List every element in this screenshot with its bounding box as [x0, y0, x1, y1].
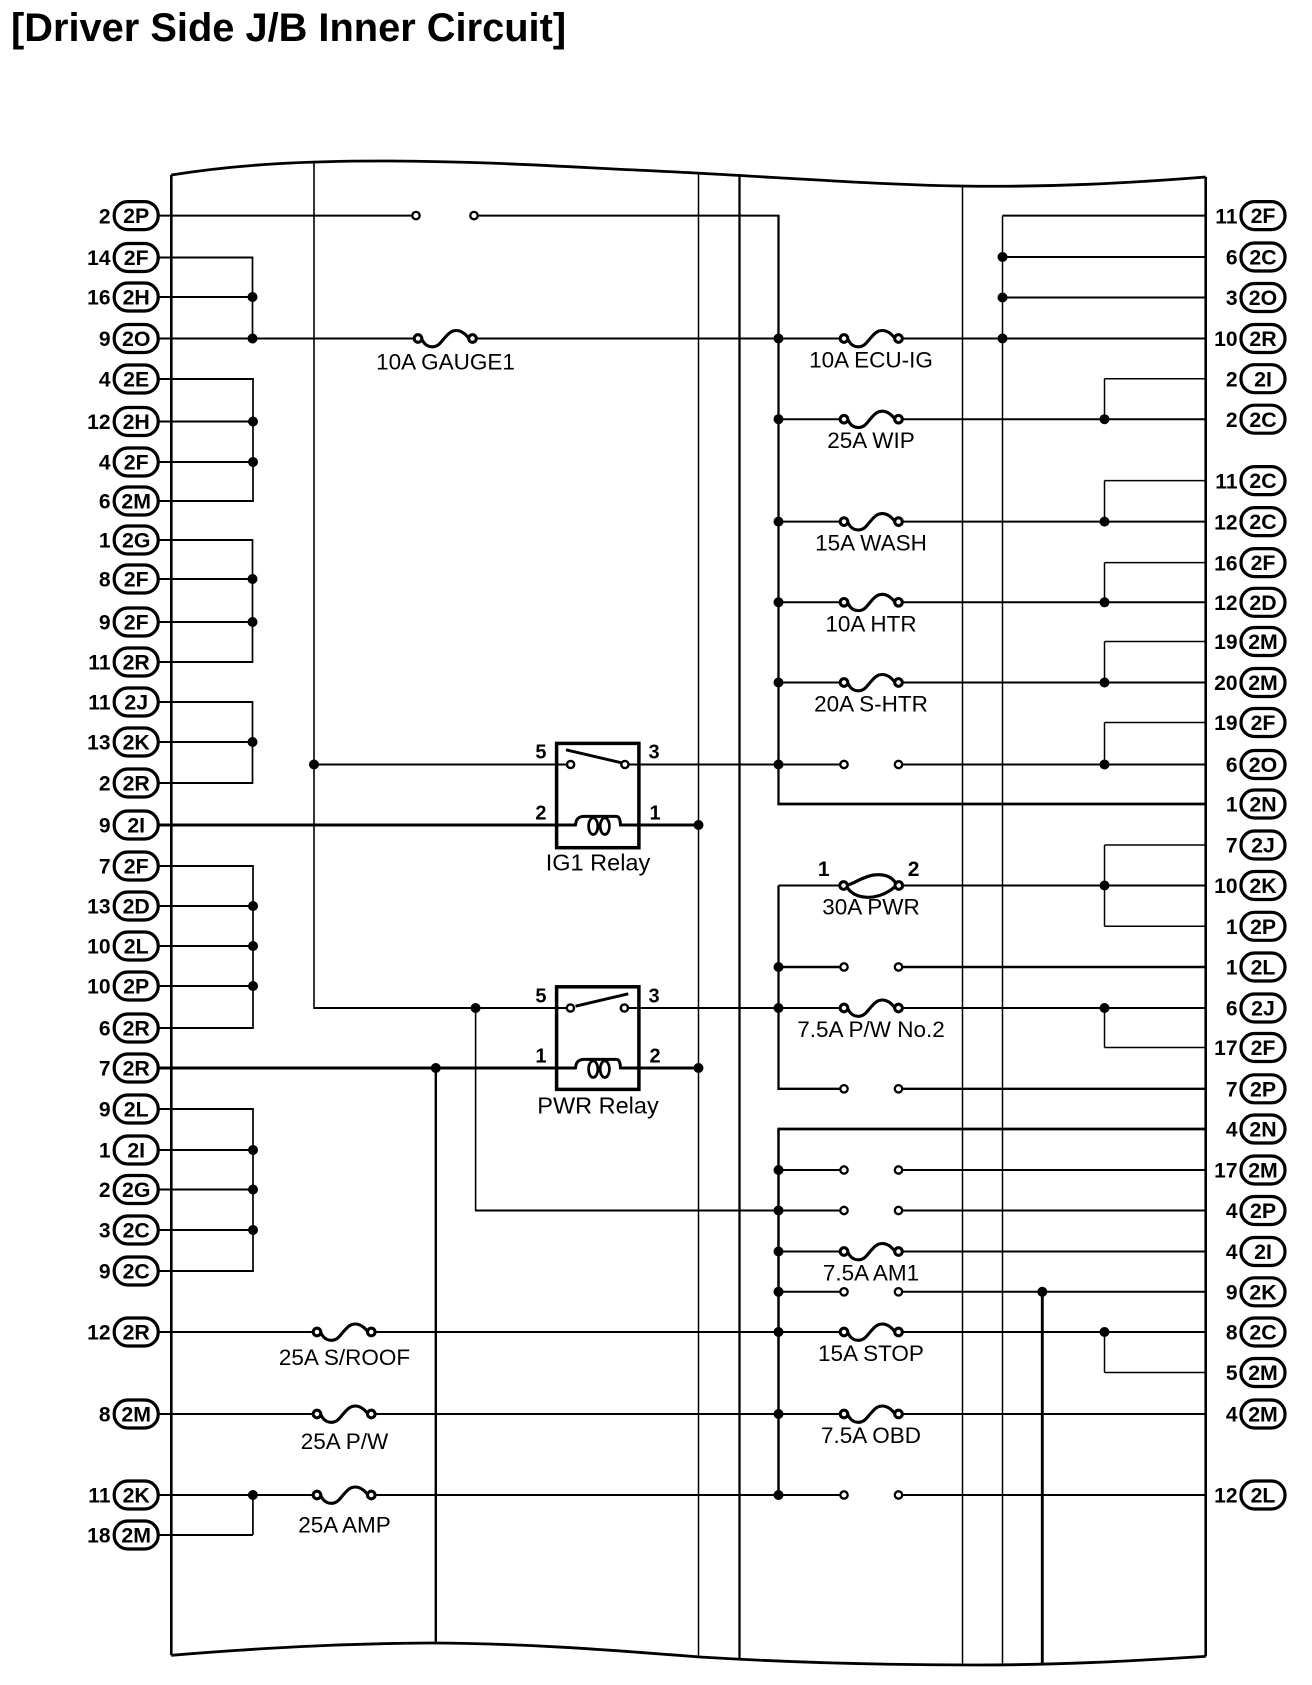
bus: feed bus x=778.5 lower (4 2N row to 12 2L row) [777, 1129, 780, 1495]
svg-text:[Driver Side J/B Inner Circuit: [Driver Side J/B Inner Circuit] [11, 6, 566, 50]
bus: vertical x=435.8 (7 2R row to bottom border) [435, 1068, 437, 1643]
fuse 15A STOP [818, 1324, 924, 1366]
connector pin 10 2K (right) [1214, 872, 1285, 900]
connector pin 20 2M (right) [1214, 669, 1285, 697]
connector pin 4 2F (left) [99, 448, 158, 476]
svg-text:4: 4 [1226, 1241, 1238, 1264]
bus: left group A (14 2F - 9 2O) [252, 258, 254, 339]
svg-text:2I: 2I [1254, 1240, 1272, 1264]
bus: feed bus x=778.5 upper (2 2P row to 1 2N row) [777, 216, 779, 805]
svg-text:25A AMP: 25A AMP [298, 1513, 391, 1538]
svg-text:13: 13 [87, 732, 110, 755]
wire 7 2F stub [158, 865, 254, 867]
fuse 10A GAUGE1 [376, 330, 515, 374]
svg-text:2R: 2R [123, 1321, 150, 1345]
connector pin 14 2F (left) [87, 244, 158, 272]
wire 9 2O row to 10A GAUGE1 [158, 338, 415, 340]
svg-text:2: 2 [99, 773, 111, 796]
bus: vertical x=1042.3 (9 2K row to bottom border, bold) [1041, 1292, 1044, 1665]
svg-text:11: 11 [1215, 205, 1238, 228]
junction 1 2I junction [248, 1145, 258, 1155]
connector pin 1 2G (left) [99, 526, 158, 554]
wire connector 7 2J / 1 2P to 10 2K row [1104, 845, 1106, 926]
junction 6 2O junction [1100, 760, 1110, 770]
junction 8 2F junction [248, 574, 258, 584]
svg-text:10: 10 [1214, 328, 1237, 351]
connector pin 10 2P (left) [87, 972, 158, 1000]
svg-text:7: 7 [1226, 835, 1238, 858]
connector pin 1 2L (right) [1226, 953, 1285, 981]
fuse 7.5A OBD [821, 1406, 921, 1448]
junction 13 2D junction [248, 901, 258, 911]
junction feed bus / STOP junction [774, 1327, 784, 1337]
svg-text:2L: 2L [1251, 956, 1276, 980]
connector pin 6 2O (right) [1226, 751, 1285, 779]
svg-text:8: 8 [99, 569, 111, 592]
junction 6 2J junction [1100, 1003, 1110, 1013]
connector pin 18 2M (left) [87, 1521, 158, 1549]
contact 1 2L row [840, 963, 902, 970]
svg-text:2F: 2F [124, 855, 149, 879]
junction feed bus / 4 2P junction [774, 1206, 784, 1216]
svg-text:2: 2 [99, 1179, 111, 1202]
wire 13 2K stub [158, 741, 253, 743]
wire 9 2C stub [158, 1270, 254, 1272]
connector pin 19 2M (right) [1214, 628, 1285, 656]
svg-text:25A P/W: 25A P/W [301, 1429, 389, 1454]
svg-text:2D: 2D [123, 895, 150, 919]
connector pin 12 2L (right) [1214, 1481, 1285, 1509]
svg-text:11: 11 [1215, 470, 1238, 493]
svg-text:2C: 2C [1249, 408, 1276, 432]
svg-text:2M: 2M [121, 1403, 151, 1427]
svg-text:2M: 2M [121, 490, 151, 514]
wire PWR coil pin2 to bus (bold) [620, 1067, 700, 1070]
wire 2 2G stub [158, 1189, 254, 1191]
bus: left group C (1 2G - 11 2R) [252, 540, 254, 662]
svg-text:12: 12 [87, 1322, 110, 1345]
svg-text:1: 1 [1226, 957, 1238, 980]
wire 2 2P row (contact to feed bus) [478, 215, 780, 217]
wire feed bus to 25A WIP [779, 418, 841, 420]
svg-text:2H: 2H [123, 286, 150, 310]
wire 1 2N row (bold) [777, 803, 1206, 806]
svg-text:2F: 2F [124, 451, 149, 475]
svg-text:2F: 2F [124, 246, 149, 270]
svg-text:2: 2 [908, 858, 920, 881]
connector pin 6 2J (right) [1226, 994, 1285, 1022]
svg-text:11: 11 [88, 1485, 111, 1508]
wire 3 2C stub [158, 1229, 254, 1231]
wire 2 2R stub [158, 782, 253, 784]
connector pin 7 2F (left) [99, 852, 158, 880]
wire P/W No.2 fuse to 6 2J oval [902, 1007, 1206, 1009]
connector pin 10 2R (right) [1214, 325, 1285, 353]
connector pin 6 2C (right) [1226, 243, 1285, 271]
fuse 25A WIP [827, 411, 915, 453]
svg-text:2K: 2K [1249, 1280, 1277, 1304]
junction 10 2L junction [248, 941, 258, 951]
svg-text:2M: 2M [1248, 671, 1278, 695]
wire 19 2M row [1105, 641, 1207, 643]
svg-text:7.5A AM1: 7.5A AM1 [823, 1261, 919, 1286]
connector pin 9 2F (left) [99, 608, 158, 636]
connector pin 17 2F (right) [1214, 1034, 1285, 1062]
junction feed bus / S-HTR junction [774, 678, 784, 688]
wire connector 8 2C row to 5 2M [1104, 1332, 1106, 1373]
junction 2 2G junction [248, 1185, 258, 1195]
junction feed bus / 9 2K junction [774, 1287, 784, 1297]
svg-text:2P: 2P [1250, 915, 1276, 939]
wire 4 2N row (bold) [777, 1128, 1206, 1131]
junction 7 2R row junction [431, 1063, 441, 1073]
contact 17 2M row [840, 1166, 902, 1173]
contact 7 2P row [840, 1085, 902, 1092]
wire 6 2R stub [158, 1027, 254, 1029]
fuse 10A ECU-IG [809, 330, 933, 372]
wire feed bus to 7 2P contact (bold) [777, 1088, 840, 1090]
bus: left group F (9 2L - 9 2C) [252, 1109, 254, 1271]
svg-text:3: 3 [99, 1220, 111, 1243]
junction feed bus / OBD junction [774, 1409, 784, 1419]
wire feed bus to 1 2L contact (bold) [779, 966, 841, 968]
junction 11 2K / 18 2M junction [248, 1490, 258, 1500]
svg-text:7: 7 [99, 1058, 111, 1081]
svg-text:2K: 2K [123, 1484, 151, 1508]
wire contact to 7 2P oval (bold) [902, 1088, 1207, 1090]
wire feed bus to 15A WASH [779, 521, 841, 523]
svg-text:5: 5 [535, 986, 546, 1008]
connector pin 3 2C (left) [99, 1216, 158, 1244]
relay IG1 coil (pins 2,1) [576, 816, 621, 834]
wire 16 2H stub [158, 296, 253, 298]
svg-text:4: 4 [1226, 1404, 1238, 1427]
wire 16 2F row [1105, 562, 1207, 564]
connector pin 2 2G (left) [99, 1176, 158, 1204]
bus: feed bus x=778.5 middle (30A PWR row to 7 2P row) [777, 886, 779, 1090]
wire feed bus to 17 2M contact [779, 1169, 841, 1171]
svg-text:2I: 2I [1254, 367, 1272, 391]
svg-text:25A WIP: 25A WIP [827, 428, 915, 453]
svg-text:2F: 2F [1251, 551, 1276, 575]
junction IG1 coil pin1 junction [694, 820, 704, 830]
svg-text:19: 19 [1214, 631, 1237, 654]
connector pin 12 2C (right) [1214, 508, 1285, 536]
connector pin 19 2F (right) [1214, 709, 1285, 737]
bus: vertical x=698.5 (top to bottom border) [698, 173, 700, 1658]
svg-text:10A ECU-IG: 10A ECU-IG [809, 348, 933, 373]
J/B box top border (wavy) [171, 161, 1205, 186]
bus: vertical x=1002.5 (11 2F row to bottom border) [1002, 216, 1004, 1665]
svg-text:17: 17 [1214, 1037, 1237, 1060]
junction feed bus / 17 2M junction [774, 1165, 784, 1175]
wire 8 2F stub [158, 578, 253, 580]
svg-text:15A WASH: 15A WASH [815, 531, 927, 556]
junction 9 2O junction [248, 334, 258, 344]
svg-text:2P: 2P [1250, 1199, 1276, 1223]
svg-text:2C: 2C [1249, 246, 1276, 270]
connector pin 9 2L (left) [99, 1095, 158, 1123]
connector pin 8 2C (right) [1226, 1318, 1285, 1346]
wire x=476 bus to 4 2P contact [476, 1210, 841, 1212]
junction feed bus / WIP junction [774, 414, 784, 424]
svg-text:7.5A OBD: 7.5A OBD [821, 1423, 921, 1448]
junction 10 2P junction [248, 981, 258, 991]
wire bus to IG1 relay pin5 [314, 764, 567, 766]
wire 3 2O row [1003, 297, 1207, 299]
wire 11 2R stub [158, 661, 253, 663]
svg-text:2E: 2E [123, 368, 149, 392]
connector pin 4 2M (right) [1226, 1400, 1285, 1428]
connector pin 9 2C (left) [99, 1257, 158, 1285]
svg-text:2: 2 [535, 803, 546, 825]
bus: left group D (11 2J - 2 2R) [252, 702, 254, 783]
svg-text:3: 3 [649, 742, 660, 764]
junction 9 2K row / bus junction [1037, 1287, 1047, 1297]
wire IG1 pin3 to 6 2O contact [629, 764, 841, 766]
svg-text:13: 13 [87, 896, 110, 919]
junction 2 2C junction [1100, 414, 1110, 424]
wire contact to 6 2O oval [902, 764, 1207, 766]
connector pin 17 2M (right) [1214, 1156, 1285, 1184]
relay PWR box [557, 987, 639, 1090]
wire 17 2F row [1105, 1047, 1207, 1049]
connector pin 4 2P (right) [1226, 1197, 1285, 1225]
fuse 25A S/ROOF [279, 1324, 410, 1370]
connector pin 2 2C (right) [1226, 405, 1285, 433]
relay IG1 switch contact arm [566, 750, 622, 763]
wire 7 2J row [1105, 844, 1207, 846]
wire 12 2R row to 25A S/ROOF [158, 1331, 314, 1333]
svg-text:12: 12 [87, 411, 110, 434]
wire feed bus to 30A PWR fuse [779, 885, 841, 887]
svg-text:2I: 2I [127, 1139, 145, 1163]
wire feed bus to 7.5A AM1 [779, 1251, 841, 1253]
svg-text:9: 9 [99, 1261, 111, 1284]
J/B box bottom border (wavy) [171, 1643, 1205, 1665]
relay IG1 box [557, 743, 639, 847]
svg-text:2J: 2J [1251, 997, 1275, 1021]
svg-text:9: 9 [99, 1099, 111, 1122]
svg-text:2: 2 [99, 205, 111, 228]
J/B box left edge [170, 175, 173, 1655]
svg-text:3: 3 [1226, 287, 1238, 310]
connector pin 11 2C (right) [1215, 467, 1285, 495]
connector pin 1 2P (right) [1226, 912, 1285, 940]
svg-text:PWR Relay: PWR Relay [537, 1093, 659, 1119]
connector pin 9 2O (left) [99, 325, 158, 353]
junction PWR coil pin2 junction [694, 1063, 704, 1073]
wire 4 2F stub [158, 461, 254, 463]
bus: left group B (4 2E - 6 2M) [252, 379, 254, 501]
svg-text:2L: 2L [124, 1098, 149, 1122]
svg-text:4: 4 [1226, 1119, 1238, 1142]
junction 9 2F junction [248, 617, 258, 627]
connector pin 8 2F (left) [99, 565, 158, 593]
wire 19 2F row [1105, 722, 1207, 724]
svg-text:2M: 2M [1248, 1361, 1278, 1385]
bus: vertical x=739.5 (top to bottom border, bold) [738, 174, 740, 1659]
wire contact to 1 2L oval (bold) [902, 966, 1207, 968]
svg-text:4: 4 [99, 452, 111, 475]
svg-text:9: 9 [99, 612, 111, 635]
fuse 10A HTR [825, 594, 916, 636]
bus: vertical x=475.6 (PWR pin5 row down to 4 2P row) [475, 1008, 477, 1211]
svg-text:12: 12 [1214, 511, 1237, 534]
svg-text:25A S/ROOF: 25A S/ROOF [279, 1345, 410, 1370]
svg-text:19: 19 [1214, 712, 1237, 735]
wire connector 19 2F to 6 2O [1104, 723, 1106, 765]
wire 1 2I stub [158, 1149, 254, 1151]
wire 2 2I row [1105, 378, 1207, 380]
wire contact to 4 2P oval [902, 1210, 1207, 1212]
wire GAUGE1 to ECU-IG fuse [477, 338, 841, 340]
junction 6 2C junction [998, 252, 1008, 262]
wire 30A PWR fuse to 10 2K oval [902, 885, 1206, 887]
bus: vertical x=962.5 (top to bottom border) [962, 186, 964, 1665]
svg-text:10: 10 [1214, 875, 1237, 898]
connector pin 1 2I (left) [99, 1136, 158, 1164]
connector pin 9 2I (left) [99, 811, 158, 839]
connector pin 11 2R (left) [88, 648, 158, 676]
svg-text:3: 3 [649, 986, 660, 1008]
svg-text:2F: 2F [1251, 204, 1276, 228]
svg-text:12: 12 [1214, 592, 1237, 615]
svg-text:2F: 2F [124, 568, 149, 592]
wire feed bus to 10A HTR [779, 601, 841, 603]
wire 1 2P row [1105, 925, 1207, 927]
wire AM1 fuse to 4 2I oval [902, 1251, 1206, 1253]
wire IG1 coil pin1 to bus (bold) [620, 824, 700, 827]
connector pin 11 2K (left) [88, 1481, 158, 1509]
svg-text:16: 16 [87, 287, 110, 310]
svg-text:8: 8 [1226, 1322, 1238, 1345]
svg-text:18: 18 [87, 1525, 111, 1548]
wire feed bus to 20A S-HTR [779, 682, 841, 684]
junction feed bus / WASH junction [774, 517, 784, 527]
wire P/W fuse to 7.5A OBD fuse [375, 1413, 841, 1415]
junction 20 2M junction [1100, 678, 1110, 688]
wire 8 2M row to 25A P/W [158, 1413, 314, 1415]
junction feed bus / HTR junction [774, 597, 784, 607]
connector pin 13 2D (left) [87, 892, 158, 920]
wire 11 2K row to 25A AMP [158, 1494, 314, 1496]
contact 6 2O row [840, 761, 902, 768]
svg-text:2M: 2M [121, 1524, 151, 1548]
junction 3 2O junction [998, 293, 1008, 303]
fuse 30A PWR [818, 858, 920, 920]
svg-text:2J: 2J [124, 691, 148, 715]
contact 2 2P row [412, 212, 477, 219]
wire 4 2E stub [158, 378, 254, 380]
relay PWR switch contact circles (pins 5,3) [567, 1004, 628, 1011]
wire 10 2L stub [158, 945, 254, 947]
svg-text:16: 16 [1214, 552, 1237, 575]
svg-text:2D: 2D [1249, 591, 1276, 615]
wire STOP fuse to 8 2C oval [902, 1331, 1206, 1333]
svg-text:2O: 2O [1249, 753, 1277, 777]
junction 12 2C junction [1100, 517, 1110, 527]
relay PWR switch contact arm [576, 994, 629, 1006]
svg-text:4: 4 [99, 369, 111, 392]
svg-text:7: 7 [99, 856, 111, 879]
fuse 20A S-HTR [814, 674, 928, 716]
fuse 7.5A P/W No.2 [797, 1000, 945, 1042]
svg-text:2G: 2G [122, 529, 150, 553]
svg-text:2F: 2F [1251, 1036, 1276, 1060]
junction PWR pin5 row junction [471, 1003, 481, 1013]
svg-text:17: 17 [1214, 1160, 1237, 1183]
svg-text:20: 20 [1214, 672, 1237, 695]
contact 4 2P row [840, 1207, 902, 1214]
svg-text:5: 5 [1226, 1362, 1238, 1385]
wire connector 16 2F to 12 2D [1104, 563, 1106, 603]
svg-text:10: 10 [87, 936, 110, 959]
svg-text:2I: 2I [127, 814, 145, 838]
wire 5 2M row [1105, 1372, 1207, 1374]
relay IG1 switch contact circles (pins 5,3) [567, 761, 629, 768]
connector pin 2 2I (right) [1226, 365, 1285, 393]
svg-text:6: 6 [99, 1018, 111, 1041]
bus: relay feed vertical x=314 (top border to PWR relay pin5) [313, 161, 315, 1009]
wire S-HTR fuse to 20 2M oval [902, 682, 1206, 684]
bus: left group E (7 2F - 6 2R) [252, 866, 254, 1028]
wire 7 2R row to PWR relay coil (bold) [158, 1067, 577, 1070]
wire 9 2F stub [158, 621, 253, 623]
connector pin 11 2J (left) [88, 688, 158, 716]
svg-text:2M: 2M [1248, 1159, 1278, 1183]
svg-text:2M: 2M [1248, 1403, 1278, 1427]
svg-text:9: 9 [99, 328, 111, 351]
svg-text:2P: 2P [1250, 1077, 1276, 1101]
svg-text:4: 4 [1226, 1200, 1238, 1223]
svg-text:2C: 2C [1249, 469, 1276, 493]
contact 9 2K row [840, 1288, 902, 1295]
wire contact to 12 2L oval [902, 1494, 1207, 1496]
connector pin 7 2J (right) [1226, 831, 1285, 859]
wire connector 2 2I to 2 2C [1104, 379, 1106, 420]
svg-text:5: 5 [535, 742, 546, 764]
wire 12 2H stub [158, 421, 254, 423]
wire 6 2M stub [158, 500, 254, 502]
wire 11 2J stub [158, 701, 253, 703]
fuse 25A AMP [298, 1487, 391, 1538]
svg-text:2C: 2C [123, 1260, 150, 1284]
wire 10 2P stub [158, 985, 254, 987]
junction 10 2R junction [998, 334, 1008, 344]
wire feed bus to 9 2K contact [779, 1291, 841, 1293]
svg-text:2G: 2G [122, 1178, 150, 1202]
svg-text:1: 1 [99, 530, 111, 553]
junction 4 2F junction [248, 457, 258, 467]
svg-text:2K: 2K [123, 731, 151, 755]
wire WASH fuse to 12 2C oval [902, 521, 1206, 523]
svg-text:7: 7 [1226, 1079, 1238, 1102]
wire 11 2F row [1003, 215, 1207, 217]
svg-text:IG1 Relay: IG1 Relay [546, 850, 651, 876]
wire contact to 9 2K oval [902, 1291, 1207, 1293]
junction 8 2C junction [1100, 1327, 1110, 1337]
connector pin 16 2F (right) [1214, 549, 1285, 577]
bus: left group G (11 2K - 18 2M) [252, 1495, 254, 1535]
wire 9 2I row to IG1 relay coil (bold) [158, 824, 577, 827]
svg-text:2C: 2C [123, 1219, 150, 1243]
connector pin 3 2O (right) [1226, 284, 1285, 312]
connector pin 9 2K (right) [1226, 1278, 1285, 1306]
connector pin 10 2L (left) [87, 932, 158, 960]
wire AMP fuse to 12 2L contact [375, 1494, 841, 1496]
wire PWR pin3 to 7.5A P/W No.2 fuse [629, 1007, 840, 1009]
